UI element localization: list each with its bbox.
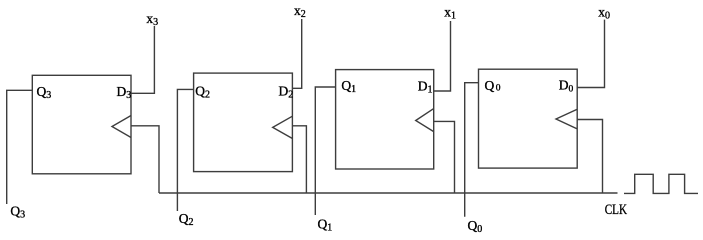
wire x3 to D3 [131,26,154,93]
svg-text:D0: D0 [559,77,574,94]
wire Q3 output [7,90,33,204]
clock waveform [624,174,698,193]
svg-text:Q2: Q2 [179,211,194,228]
clock triangle U3 [112,116,131,138]
svg-text:x2: x2 [294,3,306,20]
svg-text:Q3: Q3 [10,204,25,221]
wire x1 to D1 [434,21,451,91]
svg-text:CLK: CLK [605,202,628,218]
clock triangle U1 [416,109,434,132]
D flip-flop U3 [32,75,131,174]
svg-text:x0: x0 [598,5,610,22]
svg-text:Q0: Q0 [485,78,501,94]
svg-text:x3: x3 [146,11,158,28]
svg-text:Q0: Q0 [468,218,483,234]
wire clk U0 [577,120,602,194]
wire Q1 output [315,87,335,215]
svg-text:D3: D3 [117,84,132,101]
wire Q0 output [465,83,479,217]
clock triangle U2 [273,116,293,138]
svg-text:Q3: Q3 [37,84,52,101]
D flip-flop U2 [194,73,293,172]
wire x0 to D0 [577,20,604,88]
svg-text:Q1: Q1 [318,216,333,233]
svg-text:Q2: Q2 [195,83,210,100]
D flip-flop U1 [336,70,434,169]
wire clk U3 [131,126,159,193]
wire clk U1 [434,121,455,193]
svg-text:Q1: Q1 [341,78,356,95]
svg-text:D1: D1 [418,78,433,95]
wire clk U2 [292,126,306,193]
svg-text:D2: D2 [279,84,294,101]
wire Q2 output [177,89,193,211]
CLK bus wire [159,192,618,194]
svg-text:x1: x1 [444,4,456,21]
wire x2 to D2 [292,19,301,88]
D flip-flop U0 [479,69,578,168]
clock triangle U0 [556,109,577,129]
